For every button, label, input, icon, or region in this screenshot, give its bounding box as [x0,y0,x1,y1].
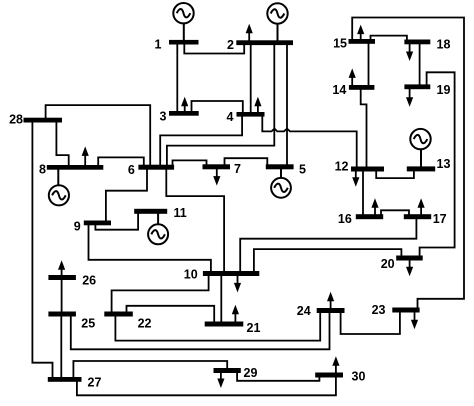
svg-text:12: 12 [335,160,349,174]
load arrow up bus 3 [181,97,188,112]
wire line 10-22 [112,275,209,313]
svg-text:1: 1 [155,38,162,52]
wire line 10-21 [220,275,222,323]
generator G2 at bus 2 [267,3,287,41]
bus 6 [138,165,174,170]
bus 25 [48,312,76,317]
wire line 27-30 [77,377,336,396]
load arrow up bus 4 [254,97,261,113]
wire line 4-12 with crossing hops [262,116,356,167]
load arrow up bus 26 [58,260,65,275]
load arrow down bus 19 [406,89,413,107]
load arrow up bus 16 [371,198,378,215]
bus 4 [237,112,265,117]
wire line 15-18 [371,36,407,41]
bus 3 [169,111,199,116]
svg-text:22: 22 [138,317,152,331]
load arrow up bus 15 [357,25,364,40]
wire line 6-28 [46,105,151,165]
svg-text:18: 18 [437,37,451,51]
bus 15 [349,39,376,44]
svg-text:27: 27 [88,375,102,389]
bus 1 [169,40,199,45]
wire line 12-16 [362,171,364,216]
wire line 6-10 [166,169,224,272]
load arrow down bus 23 [411,312,418,329]
load arrow up bus 24 [327,292,334,309]
bus 12 [351,167,384,172]
load arrow down bus 7 [213,169,220,186]
wire line 10-20 [254,249,402,272]
svg-text:23: 23 [372,303,386,317]
wire line 4-6 [160,116,242,166]
svg-text:16: 16 [338,212,352,226]
wire line 6-7 [173,160,207,165]
svg-text:30: 30 [352,369,366,383]
wire line 1-3 [176,44,178,112]
svg-text:13: 13 [437,157,451,171]
wire line 29-30 [237,372,319,381]
bus 14 [349,85,375,90]
generator G5 at bus 5 [271,169,291,198]
wire line 16-17 [381,210,409,215]
load arrow up bus 17 [418,198,425,215]
bus 21 [205,322,244,327]
bus 11 [134,209,167,214]
wire line 6-8 [98,157,144,165]
bus 8 [47,165,104,170]
load arrow down bus 18 [406,44,413,61]
wire line 8-28 [56,122,68,166]
svg-text:7: 7 [234,162,241,176]
bus 22 [104,312,133,317]
wire line 21-22 [127,306,215,323]
svg-text:20: 20 [381,257,395,271]
svg-text:21: 21 [247,321,261,335]
wire line 27-29 [73,361,227,378]
bus 30 [315,373,343,378]
bus 28 [24,118,63,123]
wire line 25-27 [60,316,62,379]
wire line 22-24 [115,312,320,341]
generator G11 at bus 11 [148,213,168,244]
bus 5 [266,164,294,169]
wire line 2-6 [167,45,274,166]
wire line 1-2 [184,44,244,54]
wire line 12-13 [376,171,414,179]
bus 27 [48,377,82,382]
generator G8 at bus 8 [49,169,69,205]
wire line 24-25 [71,312,330,349]
svg-text:10: 10 [184,268,198,282]
load arrow down bus 10 [234,276,241,293]
generator G1 at bus 1 [173,3,193,41]
svg-text:8: 8 [39,163,46,177]
wire line 23-24 [341,312,400,335]
bus 24 [317,308,345,313]
wire line 9-10 [89,225,211,273]
wire line 19-20 [420,72,455,256]
load arrow up bus 14 [349,68,356,85]
bus 7 [203,164,231,169]
load arrow down bus 12 [352,171,359,187]
svg-text:25: 25 [81,317,95,331]
svg-text:14: 14 [332,83,346,97]
bus 9 [84,221,111,226]
svg-text:3: 3 [160,110,167,124]
bus 10 [203,271,259,276]
svg-text:15: 15 [333,36,347,50]
wire line 18-19 [419,44,421,86]
bus 23 [392,308,419,313]
load arrow up bus 8 [82,146,89,165]
svg-text:28: 28 [9,113,23,127]
svg-text:29: 29 [244,366,258,380]
bus 2 [236,40,293,45]
svg-text:17: 17 [433,212,447,226]
bus 26 [48,275,76,280]
svg-text:24: 24 [297,304,311,318]
wire line 9-11 [95,213,138,230]
bus 20 [396,256,423,261]
load arrow up bus 30 [332,356,339,373]
wire line 15-23 [352,18,464,309]
wire line 5-7 [225,158,268,165]
svg-text:4: 4 [227,110,234,124]
load arrow up bus 2 [246,24,253,41]
wire line 2-5 [286,45,288,165]
wire line 25-26 [61,279,63,313]
bus 13 [407,166,435,171]
wire line 6-9 [106,169,147,222]
svg-text:9: 9 [74,220,81,234]
load arrow down bus 29 [217,373,224,389]
svg-text:6: 6 [128,163,135,177]
wire line 2-4 [250,45,252,113]
wire line 3-4 [192,101,243,113]
bus 16 [356,214,383,219]
load arrow down bus 20 [406,260,413,276]
wire line 10-17 [240,218,416,272]
svg-text:19: 19 [437,83,451,97]
bus 29 [214,368,241,373]
wire line 12-14 [361,89,367,167]
bus 18 [404,40,430,45]
svg-text:26: 26 [82,274,96,288]
svg-text:2: 2 [227,38,234,52]
wire line 28-27 [32,122,52,379]
bus 17 [404,214,431,219]
svg-text:11: 11 [174,206,187,220]
bus 19 [404,84,430,89]
svg-text:5: 5 [299,162,306,176]
load arrow up bus 21 [232,305,239,322]
generator G13 at bus 13 [410,129,430,167]
wire line 14-15 [368,44,370,87]
